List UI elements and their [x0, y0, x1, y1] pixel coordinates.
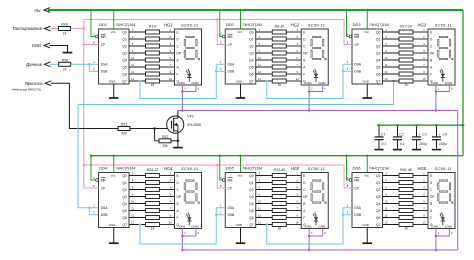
- HG1 seven segment digit: [184, 36, 199, 59]
- svg-text:74HC(T)164: 74HC(T)164: [242, 23, 262, 27]
- svg-text:10: 10: [258, 199, 261, 203]
- svg-text:Q4: Q4: [122, 202, 127, 206]
- shift register DD4 74HC(T)164: [93, 166, 135, 228]
- svg-text:C3: C3: [422, 133, 426, 137]
- svg-text:8: 8: [324, 232, 326, 235]
- svg-text:Q0: Q0: [122, 30, 127, 34]
- HG3 LED symbol: [440, 69, 445, 82]
- svg-text:13: 13: [131, 220, 134, 224]
- resistor array R17-24: [399, 24, 413, 87]
- svg-text:9: 9: [170, 70, 172, 74]
- svg-text:5: 5: [385, 42, 387, 46]
- svg-text:DP: DP: [177, 51, 181, 55]
- clock wire to DD5 CP: [216, 164, 225, 188]
- svg-text:(Небольшая ЯРКОСТЬ): (Небольшая ЯРКОСТЬ): [12, 87, 42, 91]
- svg-text:7: 7: [297, 63, 299, 67]
- svg-text:2: 2: [170, 178, 172, 182]
- LED display HG1 SC56-11: [164, 22, 202, 85]
- shift register DD3 74HC(T)164: [347, 22, 389, 84]
- svg-text:DD6: DD6: [353, 166, 362, 171]
- svg-text:SC56-11: SC56-11: [308, 22, 326, 27]
- svg-text:Q4: Q4: [376, 58, 381, 62]
- svg-text:4: 4: [259, 178, 261, 182]
- resistor R52 10k gate pulldown: [155, 129, 159, 141]
- svg-text:5: 5: [259, 42, 261, 46]
- HG6 seven segment digit: [438, 180, 453, 203]
- +5V right side wire: [462, 10, 464, 156]
- svg-text:7: 7: [170, 63, 172, 67]
- svg-text:10: 10: [131, 199, 134, 203]
- wire R51 to VT1 gate: [130, 127, 172, 130]
- svg-text:E: E: [303, 30, 305, 34]
- svg-text:GND: GND: [109, 79, 115, 83]
- svg-text:74HC(T)164: 74HC(T)164: [116, 23, 136, 27]
- svg-text:Q6: Q6: [122, 216, 127, 220]
- svg-text:B: B: [303, 202, 305, 206]
- HG1 LED symbol: [186, 69, 191, 82]
- svg-text:5: 5: [385, 185, 387, 189]
- svg-text:COM2: COM2: [318, 225, 326, 229]
- svg-text:7: 7: [297, 206, 299, 210]
- svg-text:Q3: Q3: [376, 195, 381, 199]
- svg-text:2: 2: [423, 178, 425, 182]
- COM rail right side: [457, 111, 459, 251]
- svg-text:2: 2: [347, 211, 349, 215]
- shift register DD1 74HC(T)164: [93, 22, 135, 84]
- svg-text:Q1: Q1: [122, 37, 127, 41]
- DD2 GND pin ground: [236, 84, 246, 98]
- svg-text:CP: CP: [227, 43, 232, 47]
- svg-text:10: 10: [131, 56, 134, 60]
- svg-text:Q5: Q5: [376, 65, 381, 69]
- HG2 LED symbol: [313, 69, 318, 82]
- svg-text:6: 6: [423, 56, 425, 60]
- svg-text:Q6: Q6: [249, 72, 254, 76]
- svg-text:11: 11: [131, 206, 134, 210]
- svg-text:10: 10: [169, 220, 172, 224]
- wires DD4 outputs through R25-32 to HG4: [129, 176, 175, 225]
- svg-text:1: 1: [93, 204, 95, 208]
- svg-text:GND: GND: [236, 223, 242, 227]
- shift register DD2 74HC(T)164: [220, 22, 262, 84]
- resistor array R1-8: [146, 24, 160, 87]
- DD4 GND pin ground: [109, 228, 119, 244]
- shift register DD6 74HC(T)164: [347, 166, 389, 228]
- clock wire to DD3 CP: [344, 20, 352, 45]
- svg-text:1k: 1k: [151, 83, 155, 87]
- wires DD6 outputs through R41-48 to HG6: [383, 176, 429, 225]
- svg-text:11: 11: [385, 63, 388, 67]
- wire +5V to DD1 Vcc: [113, 9, 116, 29]
- svg-text:R33-40: R33-40: [274, 168, 286, 172]
- HG5 LED symbol: [313, 212, 318, 225]
- svg-text:Q3: Q3: [376, 51, 381, 55]
- svg-text:9: 9: [423, 70, 425, 74]
- wire HG5 common cathodes to COM rail: [308, 229, 326, 252]
- wire +5V to DD4 Vcc: [113, 154, 116, 172]
- svg-text:12: 12: [385, 70, 388, 74]
- +5V top rail: [48, 9, 463, 11]
- port brightness (Яркость): [12, 81, 118, 129]
- svg-text:1: 1: [220, 204, 222, 208]
- svg-text:B: B: [177, 202, 179, 206]
- svg-text:12: 12: [258, 70, 261, 74]
- svg-text:Q2: Q2: [122, 188, 127, 192]
- svg-text:7: 7: [170, 206, 172, 210]
- svg-text:10: 10: [423, 77, 426, 81]
- svg-text:4: 4: [385, 35, 387, 39]
- svg-text:Данные: Данные: [25, 62, 42, 67]
- svg-text:E: E: [430, 30, 432, 34]
- svg-text:COM2: COM2: [191, 81, 199, 85]
- svg-text:12: 12: [385, 213, 388, 217]
- svg-text:1k: 1k: [151, 226, 155, 230]
- svg-text:DSB: DSB: [101, 70, 109, 74]
- svg-text:+5v: +5v: [34, 8, 42, 13]
- port clock (Тактирование): [12, 26, 58, 31]
- svg-text:C1: C1: [381, 133, 385, 137]
- svg-text:COM1: COM1: [178, 81, 186, 85]
- COM rail top: [178, 110, 458, 112]
- svg-text:Яркость: Яркость: [24, 81, 44, 86]
- svg-text:Q1: Q1: [376, 181, 381, 185]
- svg-text:GND: GND: [362, 79, 368, 83]
- svg-text:10: 10: [169, 77, 172, 81]
- svg-text:Vcc: Vcc: [111, 30, 116, 34]
- svg-text:7: 7: [423, 206, 425, 210]
- svg-text:5: 5: [423, 192, 425, 196]
- resistor array R33-40: [272, 168, 286, 231]
- svg-text:E: E: [303, 174, 305, 178]
- svg-text:8: 8: [347, 184, 349, 188]
- svg-text:Q3: Q3: [249, 51, 254, 55]
- DD1 GND pin ground: [109, 84, 119, 98]
- data cascade DD3 Q7 to DD4 DSA/DSB: [78, 80, 395, 215]
- svg-text:Тактирование: Тактирование: [12, 26, 42, 31]
- svg-text:5: 5: [132, 42, 134, 46]
- svg-text:Q7: Q7: [122, 79, 127, 83]
- svg-text:4: 4: [423, 185, 425, 189]
- svg-text:Q7: Q7: [376, 79, 381, 83]
- data cascade wire into DD6 DSA/DSB: [266, 208, 353, 244]
- svg-text:Q1: Q1: [249, 37, 254, 41]
- svg-text:1: 1: [347, 60, 349, 64]
- HG4 LED symbol: [186, 212, 191, 225]
- resistor array R25-32: [146, 168, 160, 231]
- svg-text:8: 8: [451, 88, 453, 91]
- svg-text:8: 8: [93, 184, 95, 188]
- port data (Данные): [25, 62, 58, 67]
- svg-text:MR: MR: [101, 179, 107, 183]
- svg-text:3: 3: [259, 171, 261, 175]
- wires DD1 outputs through R1-8 to HG1: [129, 32, 175, 81]
- svg-text:4: 4: [132, 35, 134, 39]
- svg-text:B: B: [177, 58, 179, 62]
- svg-text:6: 6: [385, 192, 387, 196]
- svg-text:3: 3: [259, 28, 261, 32]
- wire HG1 common cathodes to COM rail: [181, 85, 199, 112]
- svg-text:Q6: Q6: [376, 72, 381, 76]
- wire HG3 common cathodes to COM rail: [435, 85, 453, 112]
- svg-text:1: 1: [297, 28, 299, 32]
- svg-text:COM1: COM1: [304, 225, 312, 229]
- svg-text:8: 8: [198, 88, 200, 91]
- port GND: [32, 43, 73, 53]
- svg-text:MR: MR: [101, 35, 107, 39]
- clock net from R49 to DD1/DD4: [71, 20, 345, 189]
- svg-text:5: 5: [132, 185, 134, 189]
- svg-text:6: 6: [170, 56, 172, 60]
- svg-text:E: E: [430, 174, 432, 178]
- svg-text:6: 6: [132, 192, 134, 196]
- svg-text:3: 3: [385, 171, 387, 175]
- svg-text:2: 2: [170, 35, 172, 39]
- svg-text:9: 9: [347, 32, 349, 36]
- svg-text:DP: DP: [430, 195, 434, 199]
- svg-text:CP: CP: [101, 43, 106, 47]
- svg-text:COM2: COM2: [318, 81, 326, 85]
- svg-text:9: 9: [220, 176, 222, 180]
- LED display HG4 SC56-11: [164, 166, 202, 229]
- svg-text:6: 6: [259, 49, 261, 53]
- svg-text:5: 5: [259, 185, 261, 189]
- wires DD5 outputs through R33-40 to HG5: [256, 176, 302, 225]
- svg-text:CP: CP: [227, 186, 232, 190]
- resistor R50 1k in data line: [59, 58, 71, 71]
- svg-text:COM2: COM2: [445, 81, 453, 85]
- svg-text:Q2: Q2: [249, 44, 254, 48]
- svg-text:Q5: Q5: [122, 65, 127, 69]
- svg-text:9: 9: [423, 213, 425, 217]
- svg-text:6: 6: [297, 56, 299, 60]
- svg-text:2: 2: [93, 67, 95, 71]
- svg-text:8: 8: [220, 40, 222, 44]
- svg-text:Q6: Q6: [122, 72, 127, 76]
- svg-text:DP: DP: [430, 51, 434, 55]
- svg-text:R9-16: R9-16: [274, 24, 284, 28]
- svg-text:GND: GND: [109, 223, 115, 227]
- svg-text:13: 13: [385, 77, 388, 81]
- svg-text:COM2: COM2: [191, 225, 199, 229]
- +5V capacitor rail: [377, 124, 464, 127]
- svg-text:DP: DP: [177, 195, 181, 199]
- svg-text:Q4: Q4: [376, 202, 381, 206]
- svg-text:5: 5: [170, 192, 172, 196]
- shift register DD5 74HC(T)164: [220, 166, 262, 228]
- svg-text:Q3: Q3: [122, 195, 127, 199]
- svg-text:Q6: Q6: [376, 216, 381, 220]
- svg-text:MR: MR: [354, 179, 360, 183]
- svg-text:Q2: Q2: [376, 44, 381, 48]
- svg-text:1: 1: [347, 204, 349, 208]
- svg-text:1: 1: [170, 28, 172, 32]
- svg-text:2: 2: [93, 211, 95, 215]
- svg-text:1k: 1k: [404, 83, 408, 87]
- svg-text:DD5: DD5: [226, 166, 235, 171]
- svg-text:F: F: [430, 72, 432, 76]
- svg-text:DSA: DSA: [101, 63, 109, 67]
- svg-text:Q2: Q2: [122, 44, 127, 48]
- svg-text:+: +: [439, 133, 441, 137]
- svg-text:GND: GND: [236, 79, 242, 83]
- wires DD2 outputs through R9-16 to HG2: [256, 32, 302, 81]
- svg-text:Vcc: Vcc: [237, 30, 242, 34]
- svg-text:12: 12: [131, 70, 134, 74]
- svg-text:8: 8: [198, 232, 200, 235]
- svg-text:9: 9: [297, 70, 299, 74]
- svg-text:74HC(T)164: 74HC(T)164: [242, 167, 262, 171]
- svg-text:Q7: Q7: [249, 223, 254, 227]
- svg-text:5: 5: [170, 49, 172, 53]
- svg-text:74HC(T)164: 74HC(T)164: [369, 167, 389, 171]
- svg-text:8: 8: [220, 184, 222, 188]
- svg-text:Vcc: Vcc: [111, 174, 116, 178]
- svg-text:Vcc: Vcc: [237, 174, 242, 178]
- LED display HG5 SC56-11: [291, 166, 329, 229]
- svg-text:DD4: DD4: [99, 166, 108, 171]
- wire HG6 common cathodes to COM rail: [435, 229, 453, 252]
- svg-text:MR: MR: [227, 35, 233, 39]
- svg-text:Q3: Q3: [122, 51, 127, 55]
- svg-text:11: 11: [131, 63, 134, 67]
- svg-text:Q3: Q3: [249, 195, 254, 199]
- svg-text:3: 3: [438, 88, 440, 91]
- svg-text:4: 4: [132, 178, 134, 182]
- svg-text:Q7: Q7: [376, 223, 381, 227]
- svg-text:9: 9: [347, 176, 349, 180]
- svg-text:1: 1: [93, 60, 95, 64]
- svg-text:9: 9: [93, 176, 95, 180]
- svg-text:R52: R52: [162, 135, 168, 139]
- svg-text:E: E: [177, 30, 179, 34]
- svg-text:4: 4: [297, 185, 299, 189]
- svg-text:Q0: Q0: [122, 174, 127, 178]
- svg-text:4: 4: [297, 42, 299, 46]
- LED display HG3 SC56-11: [418, 22, 456, 85]
- svg-text:2: 2: [220, 211, 222, 215]
- svg-text:13: 13: [258, 220, 261, 224]
- svg-text:HG2: HG2: [291, 22, 300, 27]
- svg-text:R49: R49: [61, 23, 67, 27]
- svg-text:13: 13: [131, 77, 134, 81]
- svg-text:3: 3: [311, 232, 313, 235]
- svg-text:2: 2: [220, 67, 222, 71]
- svg-text:11: 11: [258, 63, 261, 67]
- data cascade wire into DD3 DSA/DSB: [266, 64, 353, 98]
- svg-text:1: 1: [423, 171, 425, 175]
- svg-text:E: E: [177, 174, 179, 178]
- DD3 GND pin ground: [362, 84, 372, 98]
- HG2 seven segment digit: [311, 36, 326, 59]
- svg-text:3: 3: [184, 88, 186, 91]
- svg-text:5: 5: [297, 192, 299, 196]
- svg-text:6: 6: [259, 192, 261, 196]
- svg-text:13: 13: [258, 77, 261, 81]
- data cascade wire into DD2 DSA/DSB: [139, 64, 226, 98]
- svg-text:Vcc: Vcc: [364, 174, 369, 178]
- svg-text:8: 8: [451, 232, 453, 235]
- svg-text:7: 7: [423, 63, 425, 67]
- svg-text:CP: CP: [354, 43, 359, 47]
- LED display HG6 SC56-11: [418, 166, 456, 229]
- svg-text:F: F: [303, 216, 305, 220]
- capacitor C2 0.1: [393, 124, 405, 150]
- svg-text:1: 1: [423, 28, 425, 32]
- svg-text:2: 2: [297, 178, 299, 182]
- svg-text:3: 3: [132, 171, 134, 175]
- clock wire to DD4 CP: [84, 187, 99, 189]
- wire R52 to VT1 source: [171, 140, 179, 143]
- DD6 GND pin ground: [362, 228, 372, 244]
- svg-text:9: 9: [170, 213, 172, 217]
- svg-text:COM1: COM1: [431, 225, 439, 229]
- wire HG2 common cathodes to COM rail: [308, 85, 326, 112]
- svg-text:DSA: DSA: [227, 206, 235, 210]
- svg-text:CP: CP: [354, 186, 359, 190]
- svg-text:VT1: VT1: [187, 115, 194, 119]
- resistor array R9-16: [272, 24, 286, 87]
- svg-text:CP: CP: [101, 186, 106, 190]
- LED display HG2 SC56-11: [291, 22, 329, 85]
- svg-text:SC56-11: SC56-11: [181, 22, 199, 27]
- svg-text:DSA: DSA: [101, 206, 109, 210]
- svg-text:8: 8: [324, 88, 326, 91]
- svg-text:10: 10: [385, 56, 388, 60]
- svg-text:9: 9: [220, 32, 222, 36]
- svg-text:10: 10: [258, 56, 261, 60]
- svg-text:R25-32: R25-32: [147, 168, 159, 172]
- DD5 GND pin ground: [236, 228, 246, 244]
- wire +5V to DD2 Vcc: [239, 9, 242, 29]
- svg-text:1: 1: [297, 171, 299, 175]
- data wire R50 to DD1 DSA/DSB: [71, 63, 99, 71]
- svg-text:Q7: Q7: [249, 79, 254, 83]
- svg-text:13: 13: [385, 220, 388, 224]
- svg-text:1k: 1k: [63, 32, 67, 36]
- svg-text:3: 3: [385, 28, 387, 32]
- svg-text:9: 9: [297, 213, 299, 217]
- svg-text:HG6: HG6: [418, 166, 427, 171]
- svg-text:C2: C2: [399, 133, 403, 137]
- svg-text:R41-48: R41-48: [400, 168, 412, 172]
- svg-text:2: 2: [423, 35, 425, 39]
- svg-text:12: 12: [131, 213, 134, 217]
- svg-text:COM1: COM1: [431, 81, 439, 85]
- svg-text:HG3: HG3: [418, 22, 427, 27]
- svg-text:5: 5: [297, 49, 299, 53]
- svg-text:Q4: Q4: [122, 58, 127, 62]
- svg-text:100µ: 100µ: [419, 142, 427, 146]
- svg-text:10: 10: [296, 77, 299, 81]
- svg-text:6: 6: [423, 199, 425, 203]
- svg-text:4: 4: [423, 42, 425, 46]
- wire +5V to DD6 MR: [345, 154, 349, 180]
- VT1 drain wire to COM rail: [177, 111, 179, 119]
- svg-text:MR: MR: [354, 35, 360, 39]
- wire +5V to DD5 MR: [219, 154, 223, 180]
- svg-text:74HC(T)164: 74HC(T)164: [116, 167, 136, 171]
- resistor array R41-48: [399, 168, 413, 231]
- svg-text:F: F: [430, 216, 432, 220]
- wire +5V to DD3 Vcc: [366, 9, 369, 29]
- svg-text:Q5: Q5: [376, 209, 381, 213]
- svg-text:4: 4: [385, 178, 387, 182]
- svg-text:430: 430: [121, 132, 127, 136]
- svg-text:4: 4: [170, 42, 172, 46]
- svg-text:DSA: DSA: [354, 63, 362, 67]
- svg-text:DSB: DSB: [354, 70, 362, 74]
- svg-text:DSA: DSA: [227, 63, 235, 67]
